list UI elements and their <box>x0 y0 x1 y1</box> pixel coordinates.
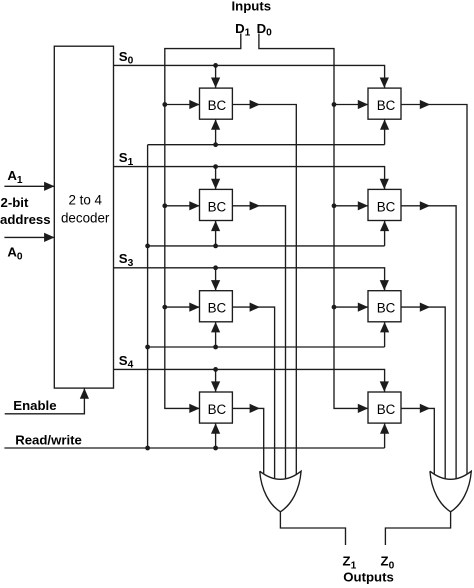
OR gate U2 (Z1) <box>260 471 301 512</box>
wire S0 stub into BC01 top <box>215 65 217 88</box>
arrowhead R/W BC31 <box>211 423 220 433</box>
wire Read/write main line <box>4 447 384 449</box>
node D0 junction row 2 <box>332 305 337 310</box>
wire D0 data feed <box>259 34 368 409</box>
svg-text:Enable: Enable <box>13 398 56 413</box>
svg-text:BC: BC <box>377 199 396 214</box>
arrowhead D1 BC11 <box>189 201 199 210</box>
node R/W feed junction row 3 <box>145 446 150 451</box>
arrowhead BC10 output <box>420 201 430 210</box>
node S0 junction <box>213 63 218 68</box>
node D1 junction row 2 <box>162 305 167 310</box>
wire A0 input <box>4 236 54 238</box>
arrowhead BC20 output <box>420 303 430 312</box>
svg-text:2 to 4: 2 to 4 <box>68 193 102 208</box>
arrowhead R/W BC30 <box>380 423 389 433</box>
arrowhead S1 BC10 <box>380 179 389 189</box>
wire R/W stub into BC11 bottom <box>215 221 217 246</box>
node D0 junction row 1 <box>332 203 337 208</box>
wire R/W stub into BC00 bottom <box>384 119 386 145</box>
wire Z1 output <box>280 512 345 545</box>
wire BC10 output <box>401 206 456 480</box>
wire BC21 output <box>232 307 274 480</box>
binary cell BC row1 col0 <box>200 189 233 220</box>
arrowhead D0 BC20 <box>358 303 368 312</box>
node D1 junction row 1 <box>162 203 167 208</box>
binary cell BC row1 col1 <box>368 189 401 220</box>
arrowhead S4 BC31 <box>211 381 220 391</box>
node R/W feed junction row 2 <box>145 345 150 350</box>
wire S1 stub into BC11 top <box>215 167 217 190</box>
svg-text:BC: BC <box>377 301 396 316</box>
arrowhead S3 BC21 <box>211 280 220 290</box>
binary cell BC row3 col0 <box>200 392 233 423</box>
wire R/W stub into BC10 bottom <box>384 221 386 246</box>
wire D0 into BC10 <box>334 205 368 207</box>
arrowhead D1 BC01 <box>189 100 199 109</box>
arrowhead R/W BC11 <box>211 221 220 231</box>
arrowhead S0 BC01 <box>211 78 220 88</box>
svg-text:BC: BC <box>208 98 227 113</box>
node R/W junction col0 row 0 <box>213 142 218 147</box>
arrowhead R/W BC01 <box>211 119 220 129</box>
wire select S4 line <box>114 369 385 392</box>
wire R/W stub into BC31 bottom <box>215 423 217 448</box>
svg-text:decoder: decoder <box>61 210 110 225</box>
arrowhead R/W BC20 <box>380 322 389 332</box>
node S3 junction <box>213 265 218 270</box>
arrowhead BC11 output <box>250 201 260 210</box>
svg-text:Inputs: Inputs <box>232 0 272 13</box>
wire S3 stub into BC21 top <box>215 268 217 291</box>
wire D1 into BC11 <box>165 205 200 207</box>
arrowhead A0 <box>44 233 54 242</box>
arrowhead A1 <box>44 182 54 191</box>
wire R/W stub into BC21 bottom <box>215 322 217 347</box>
wire R/W row 1 line <box>148 245 385 247</box>
arrowhead D1 BC21 <box>189 303 199 312</box>
wire Enable input <box>5 388 85 414</box>
arrowhead R/W BC10 <box>380 221 389 231</box>
wire BC30 output <box>401 408 434 475</box>
arrowhead R/W BC00 <box>380 119 389 129</box>
arrowhead S4 BC30 <box>380 381 389 391</box>
wire D0 into BC00 <box>334 104 368 106</box>
binary cell BC row0 col0 <box>200 88 233 119</box>
svg-text:BC: BC <box>208 402 227 417</box>
node R/W junction col0 row 3 <box>213 446 218 451</box>
svg-text:BC: BC <box>377 402 396 417</box>
wire D0 into BC20 <box>334 306 368 308</box>
svg-text:Read/write: Read/write <box>15 433 82 448</box>
node R/W feed junction row 1 <box>145 244 150 249</box>
arrowhead D0 BC10 <box>358 201 368 210</box>
node S4 junction <box>213 367 218 372</box>
binary cell BC row0 col1 <box>368 88 401 119</box>
svg-text:BC: BC <box>377 98 396 113</box>
wire S4 stub into BC31 top <box>215 369 217 392</box>
svg-text:2-bit: 2-bit <box>1 195 29 210</box>
arrowhead S1 BC11 <box>211 179 220 189</box>
binary cell BC row3 col1 <box>368 392 401 423</box>
binary cell BC row2 col0 <box>200 291 233 322</box>
wire D1 data feed <box>165 34 241 409</box>
wire R/W row 0 line <box>148 144 385 146</box>
wire BC00 output <box>401 105 467 476</box>
svg-text:address: address <box>0 212 51 227</box>
arrowhead S3 BC20 <box>380 280 389 290</box>
svg-text:Outputs: Outputs <box>343 570 394 585</box>
node R/W junction col0 row 2 <box>213 345 218 350</box>
decoder U1 (2-to-4 decoder) <box>54 46 113 388</box>
wire R/W stub into BC01 bottom <box>215 119 217 145</box>
wire BC20 output <box>401 307 445 480</box>
wire select S1 line <box>114 167 385 190</box>
svg-text:BC: BC <box>208 301 227 316</box>
wire R/W stub into BC30 bottom <box>384 423 386 448</box>
wire BC11 output <box>232 206 285 480</box>
binary cell BC row2 col1 <box>368 291 401 322</box>
wire BC31 output <box>232 408 263 475</box>
wire Read/write vertical feed <box>147 145 149 448</box>
wire R/W stub into BC20 bottom <box>384 322 386 347</box>
wire Z0 output <box>385 512 450 545</box>
wire select S3 line <box>114 268 385 291</box>
node S1 junction <box>213 164 218 169</box>
OR gate U3 (Z0) <box>430 471 471 512</box>
wire D1 into BC01 <box>165 104 200 106</box>
arrowhead D0 BC30 input <box>358 404 368 413</box>
wire BC01 output <box>232 105 296 476</box>
wire A1 input <box>4 185 54 187</box>
node R/W junction col0 row 1 <box>213 244 218 249</box>
arrowhead Enable <box>80 388 89 398</box>
arrowhead S0 BC00 <box>380 78 389 88</box>
arrowhead R/W BC21 <box>211 322 220 332</box>
arrowhead BC00 output <box>420 100 430 109</box>
arrowhead D0 BC00 <box>358 100 368 109</box>
node D0 junction row 0 <box>332 102 337 107</box>
node D1 junction row 0 <box>162 102 167 107</box>
arrowhead BC21 output <box>250 303 260 312</box>
svg-text:BC: BC <box>208 199 227 214</box>
arrowhead BC31 output <box>250 404 260 413</box>
wire D1 into BC21 <box>165 306 200 308</box>
arrowhead D1 BC31 input <box>189 404 199 413</box>
wire select S0 line <box>114 65 385 88</box>
arrowhead BC01 output <box>250 100 260 109</box>
wire R/W row 2 line <box>148 346 385 348</box>
arrowhead BC30 output <box>420 404 430 413</box>
